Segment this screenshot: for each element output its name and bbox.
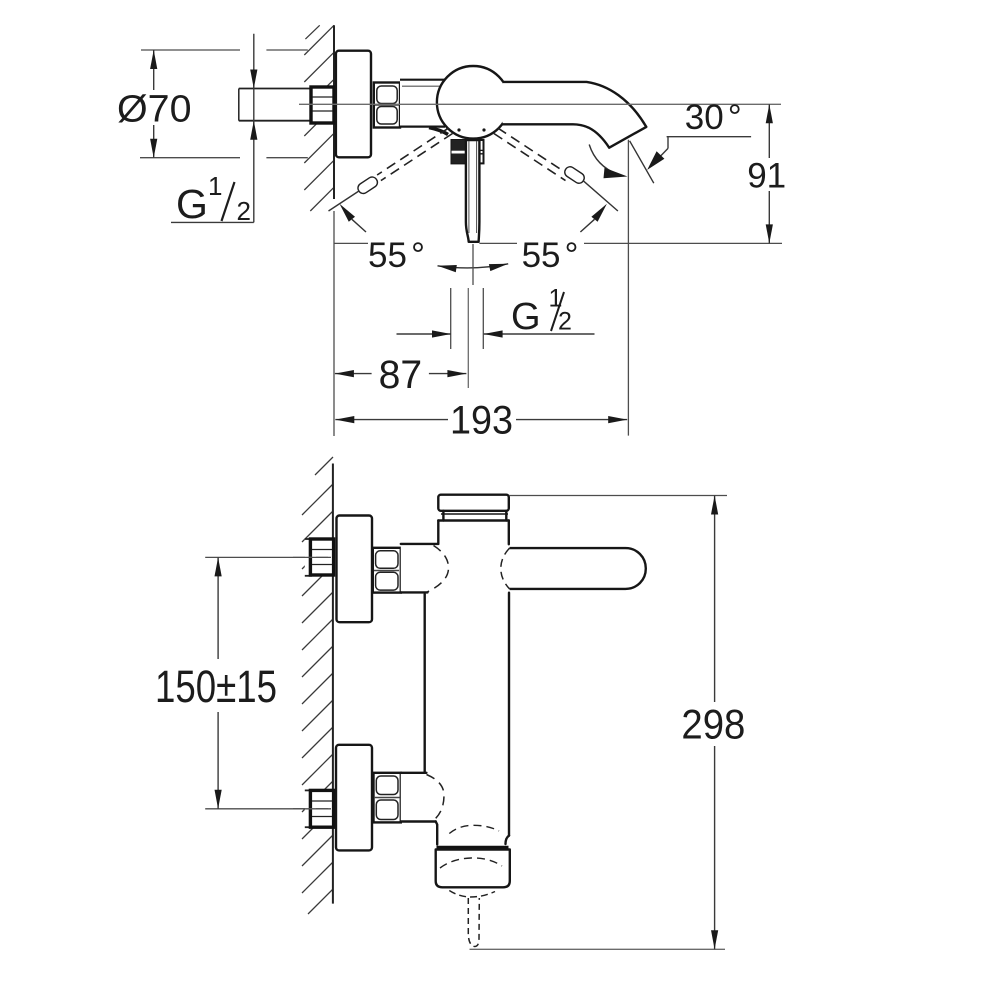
dimension G1/2 lower — [397, 285, 595, 339]
svg-text:150±15: 150±15 — [155, 661, 277, 712]
upper escutcheon — [337, 516, 373, 623]
upper housing dashed dome — [449, 825, 499, 833]
svg-text:Ø70: Ø70 — [117, 88, 192, 130]
pivot dots — [457, 128, 460, 131]
lower port: pipe stub — [305, 790, 312, 827]
svg-text:2: 2 — [237, 196, 251, 226]
baseline from nipple — [470, 948, 726, 950]
dimension 150±15 — [155, 557, 331, 808]
centerline horizontal — [299, 103, 781, 105]
svg-text:55°: 55° — [522, 236, 579, 275]
dashed lever at 55 deg right — [494, 128, 618, 211]
lever (front view) — [510, 548, 646, 589]
dimension 91 — [747, 104, 786, 243]
svg-text:55°: 55° — [368, 236, 425, 275]
wall extension line down to 193 dim — [333, 211, 335, 436]
upper union nut — [373, 548, 401, 593]
G1/2 lower ext lines — [450, 288, 452, 349]
body sides — [437, 521, 439, 544]
wall hatching top — [304, 25, 334, 211]
spout tip extension line — [627, 140, 629, 436]
dimension 298 — [681, 496, 745, 950]
body tube from nut to ball — [400, 81, 455, 126]
svg-text:1: 1 — [208, 171, 222, 201]
dashed lever at 55 deg left — [329, 128, 453, 211]
lower housing — [436, 850, 510, 888]
thick separation line — [437, 846, 509, 850]
svg-text:30°: 30° — [685, 98, 742, 137]
lever tip center ext line — [472, 244, 474, 285]
lever grip (neutral position) — [466, 140, 480, 242]
spout — [503, 82, 647, 148]
298 top ext line — [509, 495, 727, 497]
svg-text:G: G — [176, 181, 208, 227]
body cap — [438, 495, 509, 511]
right edge notch — [506, 836, 510, 844]
lever swing arc arrows — [438, 264, 509, 268]
lower union nut — [374, 773, 401, 823]
55 deg arrow left — [340, 204, 367, 232]
lever tip level reference line (91 bottom) — [334, 242, 368, 244]
mixer body (ball) — [437, 66, 510, 139]
faucet centerline vertical ext — [467, 288, 469, 388]
svg-text:91: 91 — [747, 156, 786, 195]
dimension 193 — [335, 399, 627, 443]
upper hex — [310, 539, 333, 575]
svg-text:193: 193 — [450, 399, 513, 443]
upper port centerline — [293, 556, 332, 558]
dimension 87 — [335, 353, 467, 397]
lower housing dashed dome — [440, 858, 502, 868]
svg-text:298: 298 — [681, 701, 745, 748]
lower hex — [310, 790, 333, 827]
lower escutcheon — [336, 745, 372, 851]
wall face line bottom — [332, 464, 334, 904]
svg-text:87: 87 — [379, 353, 423, 397]
under-housing dashed arc — [449, 891, 495, 898]
body neck top line — [438, 519, 509, 521]
spout swing arc arrow — [589, 145, 618, 175]
30deg reference diagonal — [630, 141, 654, 183]
supply pipe G1/2 — [239, 89, 313, 121]
svg-text:G: G — [511, 296, 541, 338]
wall hatching bottom — [302, 457, 333, 914]
body lower-left edge — [436, 822, 438, 845]
hex fitting at wall — [311, 87, 334, 123]
upper port: pipe stub — [305, 539, 312, 576]
55 deg arrow right — [580, 204, 607, 232]
lever hub — [452, 140, 484, 163]
upper boss dashed arc — [427, 546, 449, 593]
svg-text:2: 2 — [558, 308, 572, 336]
cap band — [443, 511, 506, 521]
upper stub to body — [401, 545, 437, 591]
dimension G1/2 top label — [171, 34, 257, 227]
dimension 30 deg — [589, 98, 751, 183]
lower port centerline — [293, 808, 332, 810]
escutcheon (wall rosette) — [336, 51, 371, 158]
wall face line top — [333, 25, 335, 199]
dimension Ø70 — [117, 50, 308, 158]
union nut — [374, 83, 400, 128]
lower stub to body — [401, 774, 433, 821]
lower boss dashed arc — [427, 775, 445, 821]
outlet nipple (dashed) — [468, 898, 479, 946]
